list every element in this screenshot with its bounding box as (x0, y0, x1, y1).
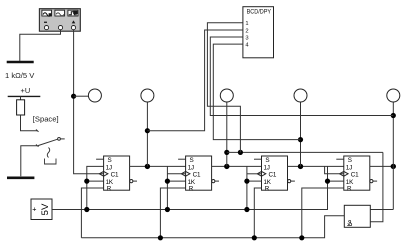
wire line2 Q2 to AND (227, 151, 383, 153)
wire U4 C step (325, 166, 344, 173)
resistor R1 1 kOhm (17, 100, 25, 115)
svg-text:C1: C1 (269, 172, 277, 179)
svg-text:S: S (348, 157, 352, 164)
node U2 JK tie (165, 179, 170, 184)
wire switch lower throw to ground (21, 146, 37, 177)
ground (top left) (7, 61, 34, 64)
svg-text:+U: +U (21, 86, 31, 95)
node Q4 to BCD tap (391, 113, 396, 118)
probe 1 (88, 89, 101, 102)
svg-text:S: S (265, 157, 269, 164)
node U1 JK tie (84, 179, 89, 184)
wire U2 K (167, 180, 185, 182)
wire AND input from Q4 (370, 209, 393, 211)
probe 5 stem down to AND input (392, 102, 394, 210)
probe 4 (294, 89, 307, 102)
svg-text:1J: 1J (346, 164, 352, 171)
JK flip-flop U3 (254, 156, 295, 192)
probe 3 stem (226, 102, 228, 166)
function generator XFG1 (39, 9, 80, 32)
probe 5 (387, 89, 400, 102)
svg-text:[Space]: [Space] (33, 114, 59, 123)
svg-text:1: 1 (245, 21, 248, 27)
ground (bottom left) (7, 177, 34, 180)
wire BCD pin2 to Q1 (147, 30, 243, 131)
node U4 JK tie (325, 179, 330, 184)
wire clock from generator + terminal down to U1 C1 (74, 30, 104, 174)
svg-text:1 kΩ/5 V: 1 kΩ/5 V (5, 71, 35, 80)
JK flip-flop U2 (178, 156, 219, 192)
svg-text:1J: 1J (106, 164, 112, 171)
wire U4 K (328, 180, 344, 182)
probe 4 stem (300, 102, 302, 166)
JK flip-flop U4 (336, 156, 377, 192)
svg-text:C1: C1 (111, 172, 119, 179)
node Q1 to BCD tap (145, 128, 150, 133)
wire U3 K (247, 180, 262, 182)
svg-text:1J: 1J (264, 164, 270, 171)
wire U2 Q to U3 (212, 165, 262, 167)
battery V1 5V (31, 199, 52, 220)
wire U3 R to reset bus (254, 188, 261, 238)
wire U3 C (247, 173, 262, 175)
+U supply symbol (8, 86, 41, 100)
node Q3 (298, 164, 303, 169)
wire bus2 reset bus (81, 216, 344, 238)
wire U3 Q to U4 (288, 165, 344, 167)
wire U1 K (87, 180, 104, 182)
wire U2 C (167, 173, 185, 175)
wire to probe 1 (74, 95, 89, 97)
wire BCD pin4 to Q3 (213, 44, 300, 140)
JK flip-flop U1 (96, 156, 137, 192)
wire U1 Q to U2 (130, 165, 186, 167)
node U1 JK on bus1 (84, 207, 89, 212)
svg-text:2: 2 (245, 28, 248, 34)
svg-text:R: R (347, 185, 352, 192)
svg-text:5V: 5V (40, 203, 51, 215)
wire U1 J/K tie (87, 166, 104, 209)
wire U4 R to reset bus (302, 188, 344, 238)
wire U1 R to reset bus (81, 188, 103, 238)
svg-text:R: R (265, 185, 270, 192)
node U2 R on bus2 (158, 235, 163, 240)
wire BCD pin3 to Q4 (210, 37, 393, 116)
probe 3 (220, 89, 233, 102)
node Q2 line2 tap (224, 150, 229, 155)
node U4 R on bus2 (299, 235, 304, 240)
wire generator common to ground (20, 30, 61, 61)
svg-text:+: + (32, 205, 36, 214)
svg-text:BCD/DPY: BCD/DPY (247, 9, 272, 15)
node clock tap (71, 94, 76, 99)
wire resistor to switch upper throw (21, 115, 38, 131)
wire BCD pin1 to Q2 (207, 23, 243, 153)
svg-text:S: S (190, 157, 194, 164)
BCD/DPY decoder display (243, 7, 274, 58)
svg-text:&: & (346, 219, 352, 228)
node Q4 (391, 164, 396, 169)
node Q1 (145, 164, 150, 169)
probe 2 stem (146, 102, 148, 166)
svg-text:R: R (189, 185, 194, 192)
node Q2 (224, 164, 229, 169)
AND gate U5 (344, 205, 370, 228)
node Q3 line1 tap (298, 137, 303, 142)
svg-text:C1: C1 (351, 172, 359, 179)
wire U3 J/K tie (246, 166, 248, 209)
wire U2 J/K tie and C feed (166, 166, 168, 209)
node U2 JK on bus1 (165, 207, 170, 212)
node U3 JK on bus1 (244, 207, 249, 212)
probe 2 (141, 89, 154, 102)
switch S1 (space key) (36, 130, 65, 165)
svg-text:S: S (108, 157, 112, 164)
wire bus1 +5V J/K bus (52, 166, 328, 209)
svg-text:C1: C1 (193, 172, 201, 179)
svg-text:R: R (107, 185, 112, 192)
wire AND input from Q2 via line2 (370, 152, 383, 221)
svg-text:3: 3 (245, 35, 248, 41)
wire U2 R to reset bus (160, 188, 185, 238)
svg-text:1J: 1J (188, 164, 194, 171)
wire U4 Q out (370, 165, 394, 167)
node U3 R on bus2 (252, 235, 257, 240)
node U3 JK tie (244, 179, 249, 184)
node line2 riser (238, 150, 243, 155)
